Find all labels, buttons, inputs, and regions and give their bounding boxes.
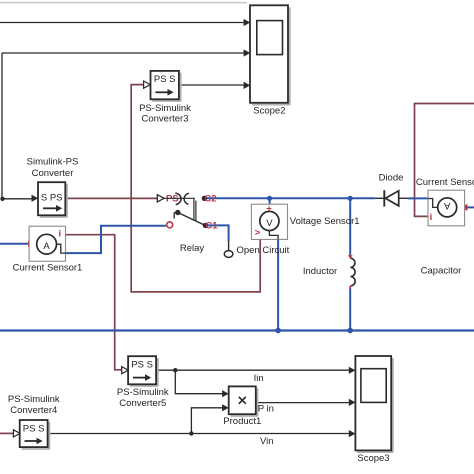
svg-text:C1: C1 <box>205 221 218 232</box>
svg-text:V: V <box>266 218 273 229</box>
svg-text:Converter3: Converter3 <box>142 113 189 124</box>
svg-text:Converter: Converter <box>32 168 74 179</box>
svg-text:Scope3: Scope3 <box>357 453 389 464</box>
svg-text:Voltage Sensor1: Voltage Sensor1 <box>290 216 360 227</box>
svg-text:Simulink-PS: Simulink-PS <box>27 157 79 168</box>
svg-text:C2: C2 <box>204 194 216 205</box>
svg-text:PS-Simulink: PS-Simulink <box>117 387 169 398</box>
svg-text:Diode: Diode <box>379 172 404 183</box>
svg-text:PS S: PS S <box>131 359 153 370</box>
svg-text:Vin: Vin <box>260 436 274 447</box>
svg-text:Capacitor: Capacitor <box>421 266 462 277</box>
svg-text:PS S: PS S <box>154 74 176 85</box>
svg-text:PS-Simulink: PS-Simulink <box>139 103 191 114</box>
svg-text:Open Circuit: Open Circuit <box>237 245 290 256</box>
svg-text:A: A <box>43 241 50 252</box>
svg-text:Current Sensor2: Current Sensor2 <box>416 177 474 188</box>
svg-text:P in: P in <box>258 403 274 414</box>
svg-text:Scope2: Scope2 <box>253 105 285 116</box>
svg-text:Converter4: Converter4 <box>10 405 57 416</box>
svg-text:Product1: Product1 <box>223 416 261 427</box>
svg-text:Iin: Iin <box>254 373 264 384</box>
svg-text:S PS: S PS <box>41 192 63 203</box>
svg-text:Current Sensor1: Current Sensor1 <box>13 262 83 273</box>
svg-text:A: A <box>443 200 450 211</box>
svg-text:Relay: Relay <box>180 243 205 254</box>
svg-text:PS S: PS S <box>23 424 45 435</box>
svg-text:i: i <box>58 229 61 240</box>
svg-text:Converter5: Converter5 <box>119 398 166 409</box>
svg-text:PS-Simulink: PS-Simulink <box>8 394 60 405</box>
svg-text:i: i <box>430 212 433 223</box>
svg-text:>: > <box>255 228 261 239</box>
svg-text:PS: PS <box>166 194 179 205</box>
svg-text:Inductor: Inductor <box>303 266 337 277</box>
